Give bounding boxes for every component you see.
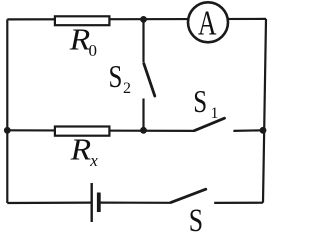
svg-text:x: x <box>89 151 98 170</box>
svg-text:S: S <box>193 84 207 120</box>
svg-text:1: 1 <box>211 105 219 122</box>
svg-text:0: 0 <box>89 41 98 60</box>
svg-text:2: 2 <box>123 80 131 97</box>
svg-text:S: S <box>109 59 123 95</box>
svg-text:S: S <box>189 203 203 233</box>
svg-text:A: A <box>198 4 216 43</box>
svg-text:R: R <box>70 132 92 166</box>
svg-text:R: R <box>69 22 91 56</box>
